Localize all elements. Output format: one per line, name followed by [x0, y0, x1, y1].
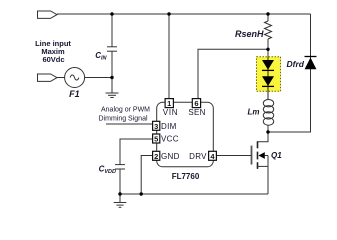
pin 4 box: [209, 151, 217, 161]
svg-text:GND: GND: [161, 152, 180, 161]
svg-text:3: 3: [154, 122, 158, 131]
pin 6 box: [192, 99, 200, 109]
capacitor CVDD: [115, 139, 153, 194]
svg-text:F1: F1: [69, 89, 80, 99]
svg-text:FL7760: FL7760: [172, 172, 200, 181]
ground input: [106, 93, 119, 98]
wire fuse to CIN node: [85, 77, 112, 79]
pin 3 box: [153, 121, 160, 131]
wire VIN drop: [168, 14, 170, 99]
LED D1: [262, 60, 274, 70]
wire SEN up-over to sense node: [198, 49, 268, 98]
resistor RsenH: [265, 14, 272, 57]
op-amp U1 FL7760 body: [157, 102, 214, 167]
svg-text:2: 2: [154, 152, 158, 161]
connector J1 top input terminal: [38, 11, 58, 18]
svg-text:Dimming Signal: Dimming Signal: [99, 116, 148, 123]
inductor Lm: [263, 100, 273, 133]
ground bottom: [114, 203, 127, 208]
wire switch node to freewheel branch: [268, 14, 311, 132]
wire top rail: [57, 13, 311, 15]
svg-text:Q1: Q1: [271, 151, 282, 160]
svg-text:6: 6: [194, 99, 198, 108]
pin 1 box: [165, 99, 173, 109]
pin 2 box: [153, 151, 160, 161]
wire J2 to fuse: [57, 77, 65, 79]
transistor Q1 MOSFET: [252, 141, 269, 194]
svg-text:1: 1: [167, 99, 171, 108]
svg-text:DRV: DRV: [189, 152, 207, 161]
LED string highlight box: [257, 57, 281, 92]
wire ground stem bottom: [119, 194, 121, 203]
capacitor CIN: [107, 14, 117, 78]
svg-text:VCC: VCC: [161, 135, 179, 144]
wire through LED box: [267, 57, 269, 100]
svg-text:SEN: SEN: [188, 108, 205, 117]
svg-text:RsenH: RsenH: [235, 29, 264, 39]
label Line input Maxim 60Vdc: [35, 39, 71, 64]
wire drain lead: [258, 132, 269, 142]
svg-text:Lm: Lm: [248, 108, 260, 117]
diode Dfrd freewheeling: [305, 57, 317, 70]
svg-text:Dfrd: Dfrd: [287, 59, 305, 69]
svg-text:60Vdc: 60Vdc: [42, 55, 64, 64]
pin 5 box: [153, 134, 160, 144]
wire gate from DRV: [217, 155, 252, 157]
wire CIN node to ground: [111, 78, 113, 94]
label Analog or PWM Dimming Signal: [99, 107, 151, 123]
svg-text:DIM: DIM: [161, 122, 177, 131]
LED D2: [262, 76, 274, 86]
wire GND pin to rail: [141, 156, 152, 195]
fuse F1: [65, 68, 85, 88]
svg-text:VIN: VIN: [163, 108, 178, 117]
wire bottom ground rail: [120, 193, 268, 195]
connector J2 bottom input terminal: [38, 74, 58, 81]
svg-text:5: 5: [154, 135, 158, 144]
wire DIM input: [106, 123, 153, 125]
svg-text:Analog or PWM: Analog or PWM: [101, 107, 150, 114]
